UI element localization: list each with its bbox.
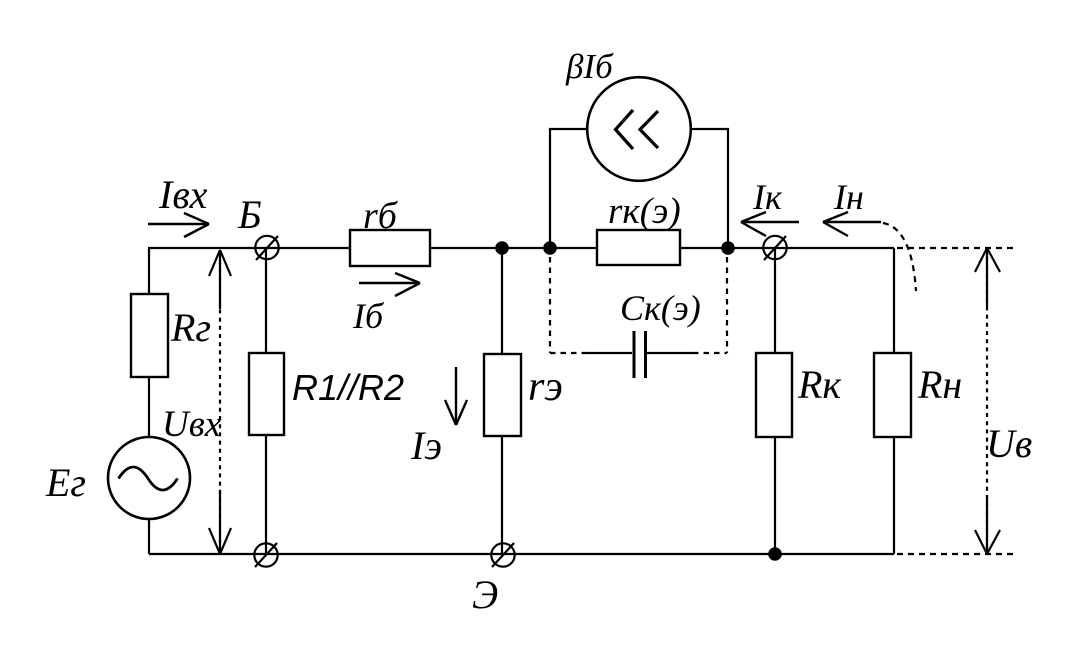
node Iк terminal <box>763 236 786 260</box>
svg-text:Э: Э <box>472 572 498 617</box>
svg-text:Iн: Iн <box>833 177 864 217</box>
svg-text:rк(э): rк(э) <box>608 191 681 232</box>
junction dot at source right <box>721 241 735 255</box>
measure arrow Uвх <box>209 250 231 554</box>
svg-text:Cк(э): Cк(э) <box>620 288 701 328</box>
resistor rб <box>350 230 430 266</box>
svg-text:rб: rб <box>363 195 399 237</box>
svg-text:Iб: Iб <box>352 296 385 336</box>
wire: bottom bus y=554 <box>149 553 894 555</box>
current source U1 βIб <box>587 77 691 181</box>
wire: emitter branch x=502 <box>501 248 503 554</box>
svg-text:Iвх: Iвх <box>158 172 208 217</box>
dotted box bottom right segment <box>693 352 727 354</box>
wire: collector branch x=775 <box>774 248 776 554</box>
arrow Iвх <box>148 213 209 237</box>
wire: current source left lead <box>550 129 587 248</box>
svg-text:Б: Б <box>237 192 262 237</box>
dashed curve from Iн arrow <box>883 223 916 291</box>
svg-text:Iэ: Iэ <box>410 423 442 468</box>
svg-text:Uв: Uв <box>986 421 1032 466</box>
arrow Iб <box>359 273 420 296</box>
svg-text:Rг: Rг <box>170 305 211 350</box>
svg-text:Iк: Iк <box>752 177 783 217</box>
junction dot at source left <box>543 241 557 255</box>
node Э terminal <box>491 543 514 567</box>
resistor rк(э) <box>597 230 680 265</box>
svg-text:βIб: βIб <box>565 47 614 86</box>
arrow Iэ <box>445 367 467 425</box>
capacitor Cк(э) plates <box>634 331 646 378</box>
wire: current source right lead <box>691 129 728 248</box>
resistor Rн <box>874 353 911 437</box>
wire: bottom dotted extension <box>897 553 1013 555</box>
wire: top dotted extension <box>897 247 1013 249</box>
resistor rэ <box>484 354 521 436</box>
arrow Iн <box>823 212 881 236</box>
junction dot at collector bottom <box>768 547 782 561</box>
measure arrow Uв <box>975 248 1000 554</box>
resistor R1//R2 <box>249 353 284 435</box>
wire: load branch x=894 <box>893 248 895 554</box>
dotted box right side <box>726 257 728 353</box>
svg-text:Eг: Eг <box>45 460 86 505</box>
svg-text:Rк: Rк <box>797 362 841 407</box>
wire: top bus y=248 <box>148 247 894 249</box>
node Б terminal <box>255 236 278 260</box>
dotted box left side <box>549 257 551 353</box>
svg-text:R1//R2: R1//R2 <box>292 367 404 408</box>
resistor Rк <box>756 353 792 437</box>
node: bottom-left terminal <box>254 543 277 567</box>
arrow Iк <box>741 212 799 236</box>
resistor Rг <box>131 294 168 377</box>
dotted box bottom left segment <box>550 352 587 354</box>
source Eг <box>108 437 190 519</box>
junction dot at emitter branch top <box>495 241 509 255</box>
wire: base branch x=266 <box>265 248 267 554</box>
capacitor Cк(э) leads <box>586 352 694 354</box>
wire: left branch x=149 <box>148 248 150 554</box>
svg-text:rэ: rэ <box>528 364 563 410</box>
svg-text:Uвх: Uвх <box>162 404 222 445</box>
svg-text:Rн: Rн <box>917 362 962 407</box>
